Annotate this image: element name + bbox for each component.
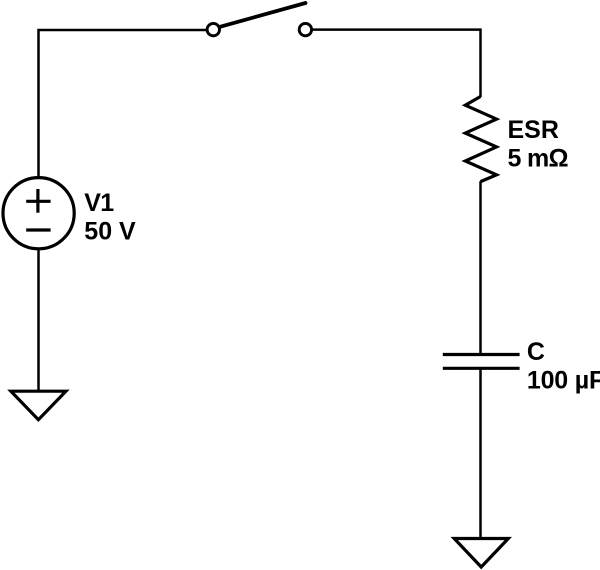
wire [39,30,207,178]
resistor ESR [465,97,496,182]
wire [37,249,40,391]
wire [312,30,480,97]
ground [454,539,508,568]
svg-text:100 µF: 100 µF [527,367,600,395]
svg-text:5 mΩ: 5 mΩ [508,144,569,172]
capacitor C [443,355,520,369]
switch SW1 [207,3,311,36]
svg-text:ESR: ESR [508,116,559,144]
wire [479,368,482,538]
svg-text:C: C [527,338,545,366]
wire [479,181,482,354]
voltage source V1 [3,178,74,249]
svg-text:50 V: 50 V [84,217,136,245]
ground [11,391,66,420]
svg-text:V1: V1 [84,189,114,217]
